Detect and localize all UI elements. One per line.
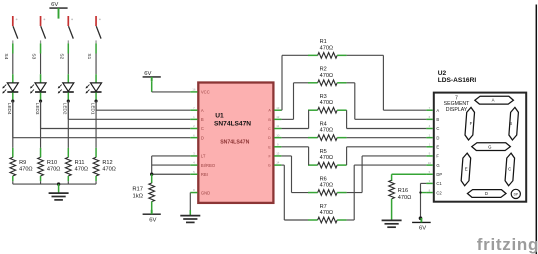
svg-text:470Ω: 470Ω [320, 155, 334, 161]
svg-text:VCC: VCC [201, 90, 210, 95]
svg-text:R11: R11 [75, 160, 85, 166]
svg-text:R3: R3 [320, 94, 327, 100]
svg-text:14: 14 [276, 161, 280, 165]
svg-text:D: D [201, 135, 204, 140]
svg-text:DISPLAY: DISPLAY [446, 107, 468, 113]
svg-text:C: C [436, 126, 439, 131]
svg-text:6V: 6V [149, 217, 156, 223]
svg-text:DP: DP [436, 172, 442, 177]
svg-text:D: D [485, 191, 488, 196]
svg-text:fritzing: fritzing [477, 235, 538, 254]
svg-text:470Ω: 470Ω [320, 73, 334, 79]
svg-text:U1: U1 [215, 113, 224, 120]
svg-text:15: 15 [276, 152, 280, 156]
svg-text:B: B [509, 121, 512, 126]
svg-text:6V: 6V [144, 71, 151, 77]
svg-text:C2: C2 [436, 190, 442, 195]
svg-text:S4: S4 [3, 53, 9, 59]
svg-text:470Ω: 470Ω [320, 128, 334, 134]
svg-text:16: 16 [192, 88, 196, 92]
svg-text:1kΩ: 1kΩ [133, 194, 144, 200]
svg-text:R10: R10 [47, 160, 57, 166]
svg-text:LED3: LED3 [35, 103, 40, 115]
svg-text:470Ω: 470Ω [398, 195, 412, 201]
svg-text:A: A [436, 108, 439, 113]
svg-text:D: D [268, 136, 271, 140]
svg-text:470Ω: 470Ω [320, 210, 334, 216]
svg-text:DP: DP [514, 192, 518, 196]
svg-text:10: 10 [428, 161, 432, 165]
svg-text:R16: R16 [398, 188, 408, 194]
svg-text:470Ω: 470Ω [320, 100, 334, 106]
svg-text:S3: S3 [31, 53, 37, 59]
svg-text:C: C [268, 127, 271, 131]
svg-text:10: 10 [276, 133, 280, 137]
svg-text:GND: GND [201, 190, 210, 195]
svg-text:F: F [436, 154, 439, 159]
svg-text:12: 12 [276, 115, 280, 119]
svg-text:LED1: LED1 [90, 103, 95, 115]
svg-text:470Ω: 470Ω [75, 167, 89, 173]
svg-text:R17: R17 [132, 187, 143, 193]
svg-text:R7: R7 [320, 204, 327, 210]
svg-text:F: F [470, 121, 473, 126]
svg-text:D: D [436, 135, 439, 140]
svg-text:6V: 6V [419, 226, 426, 232]
svg-text:A: A [201, 108, 204, 113]
svg-text:R2: R2 [320, 67, 327, 73]
svg-text:C: C [508, 167, 511, 172]
svg-text:E: E [436, 145, 439, 150]
svg-text:11: 11 [276, 124, 279, 128]
svg-text:R4: R4 [320, 121, 327, 127]
svg-text:RBI: RBI [201, 172, 208, 177]
svg-text:470Ω: 470Ω [320, 183, 334, 189]
svg-text:LED4: LED4 [7, 103, 12, 115]
svg-text:R5: R5 [320, 149, 327, 155]
svg-text:R12: R12 [102, 160, 112, 166]
svg-text:SN74LS47N: SN74LS47N [214, 121, 251, 128]
svg-text:BI/RBO: BI/RBO [201, 163, 216, 168]
svg-text:C: C [201, 126, 204, 131]
svg-text:LT: LT [201, 154, 206, 159]
svg-text:6V: 6V [51, 2, 58, 8]
svg-text:A: A [492, 98, 495, 103]
svg-text:LDS-AS16RI: LDS-AS16RI [438, 77, 477, 84]
svg-text:R9: R9 [19, 160, 26, 166]
svg-text:B: B [201, 117, 204, 122]
svg-text:U2: U2 [438, 70, 447, 77]
svg-text:S1: S1 [86, 53, 92, 59]
svg-text:13: 13 [276, 106, 280, 110]
svg-text:SN74LS47N: SN74LS47N [220, 139, 249, 145]
svg-text:LED2: LED2 [63, 103, 68, 115]
svg-text:E: E [465, 167, 468, 172]
svg-text:C1: C1 [436, 181, 442, 186]
svg-text:R1: R1 [320, 39, 327, 45]
svg-text:470Ω: 470Ω [19, 167, 33, 173]
svg-text:470Ω: 470Ω [47, 167, 61, 173]
svg-text:470Ω: 470Ω [320, 45, 334, 51]
svg-text:B: B [436, 117, 439, 122]
svg-text:R6: R6 [320, 176, 327, 182]
svg-text:G: G [436, 163, 439, 168]
svg-text:G: G [268, 164, 271, 168]
svg-text:470Ω: 470Ω [102, 167, 116, 173]
